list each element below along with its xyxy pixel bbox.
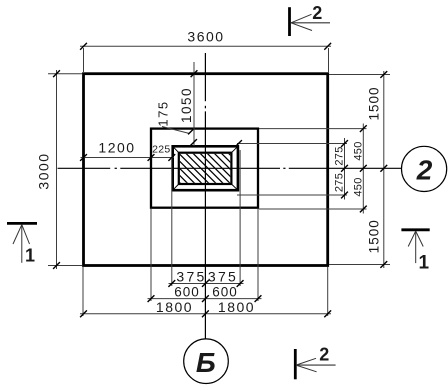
- section mark 1 (right): [401, 230, 429, 274]
- svg-text:1500: 1500: [367, 219, 382, 253]
- right extension line at pedestal bottom level: [237, 194, 347, 196]
- pedestal corner bevel BR: [231, 184, 238, 190]
- callout 1050 extension: [179, 62, 198, 146]
- svg-text:Б: Б: [196, 347, 216, 378]
- svg-text:450: 450: [353, 177, 365, 196]
- dimension chain 450/450: [353, 124, 367, 214]
- right extension line at middle step top: [259, 128, 367, 130]
- svg-text:3600: 3600: [187, 29, 224, 45]
- pedestal corner bevel BL: [173, 184, 179, 190]
- svg-text:2: 2: [319, 344, 329, 364]
- svg-text:175: 175: [156, 100, 171, 126]
- svg-text:275: 275: [334, 173, 346, 192]
- svg-text:275: 275: [334, 146, 346, 165]
- dimension chain 600/600 (bottom): [148, 285, 262, 303]
- dimension 1200 / 225: [80, 140, 175, 161]
- svg-text:1: 1: [25, 246, 35, 266]
- dimension chain 275/275: [334, 138, 348, 200]
- dimension chain 1800/1800 (bottom): [80, 299, 331, 317]
- pedestal hatch: [175, 100, 235, 238]
- pedestal top face edge: [179, 153, 232, 184]
- right extension line at pedestal top level: [237, 143, 347, 145]
- svg-text:600: 600: [212, 285, 238, 300]
- dimension 3600 (top): [80, 29, 331, 73]
- svg-text:1800: 1800: [218, 299, 255, 315]
- section mark 1 (left): [7, 223, 37, 265]
- horizontal axis centerline: [58, 167, 402, 169]
- right extension line at middle step bottom: [259, 208, 367, 210]
- svg-text:600: 600: [174, 285, 200, 300]
- bottom extension below slab right corner: [327, 267, 329, 316]
- svg-text:375: 375: [208, 269, 238, 285]
- axis bubble 2 (right): [402, 146, 447, 191]
- extension line right of pedestal: [239, 150, 241, 286]
- svg-text:450: 450: [353, 141, 365, 160]
- pedestal outer edge: [173, 146, 238, 190]
- svg-text:225: 225: [152, 143, 170, 155]
- pedestal corner bevel TR: [231, 146, 238, 152]
- extension line left of pedestal: [171, 158, 173, 286]
- svg-text:1800: 1800: [156, 299, 193, 315]
- tick at pedestal top-right: [235, 140, 242, 147]
- vertical axis centerline: [204, 53, 206, 339]
- dimension 1500 top / 1500 bottom (right): [329, 71, 390, 268]
- section mark 2 (bottom): [295, 344, 335, 379]
- svg-text:2: 2: [312, 3, 322, 23]
- dimension chain 375/375 (bottom): [168, 269, 243, 287]
- bottom extension below middle step right corner: [257, 209, 259, 301]
- svg-text:1: 1: [419, 253, 430, 274]
- svg-text:1050: 1050: [179, 87, 194, 123]
- axis bubble Б (bottom): [184, 339, 229, 384]
- foundation slab outline (3600x3000): [84, 74, 328, 266]
- svg-text:3000: 3000: [35, 152, 51, 189]
- svg-text:1500: 1500: [366, 86, 381, 120]
- section mark 2 (top): [290, 3, 331, 36]
- dimension 3000 (left): [35, 70, 82, 269]
- bottom extension below slab left corner: [82, 267, 84, 316]
- bottom extension below middle step left corner: [150, 209, 152, 301]
- svg-text:2: 2: [416, 155, 433, 186]
- svg-text:375: 375: [176, 269, 206, 285]
- svg-text:1200: 1200: [98, 140, 135, 156]
- callout 175 leader: [156, 100, 195, 134]
- foundation middle step outline: [151, 129, 258, 208]
- pedestal corner bevel TL: [173, 146, 179, 152]
